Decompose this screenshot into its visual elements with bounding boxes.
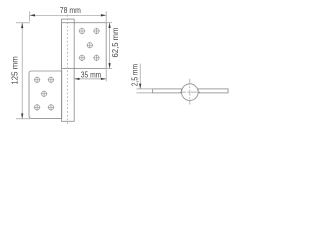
hinge barrel (front view) xyxy=(62,19,75,121)
screw hole lower leaf middle xyxy=(41,91,48,98)
svg-text:35 mm: 35 mm xyxy=(81,70,102,79)
height dimension 125 mm bottom arrow xyxy=(21,114,23,119)
height dimension 125 mm extension lines and dimension line xyxy=(16,23,30,119)
upper leaf height dimension 62,5 mm extension lines and dimension line xyxy=(106,23,112,69)
width dimension 78 mm extension lines and dimension line xyxy=(30,11,107,22)
svg-text:78 mm: 78 mm xyxy=(60,6,81,15)
side view left leaf plate xyxy=(153,89,182,93)
side view knuckle circle xyxy=(182,84,199,101)
svg-text:62,5 mm: 62,5 mm xyxy=(111,27,120,57)
svg-text:125 mm: 125 mm xyxy=(11,56,20,85)
dimension 35 mm right arrow xyxy=(101,78,106,80)
screw hole upper leaf bottom-right xyxy=(93,55,100,62)
thickness dimension 2,5 mm extension lines and dimension line xyxy=(137,64,153,93)
knuckle horizontal centerline xyxy=(180,91,200,93)
screw hole lower leaf top-left xyxy=(34,77,41,84)
screw hole upper leaf bottom-left xyxy=(79,55,86,62)
upper leaf (front view) xyxy=(62,23,107,69)
screw hole upper leaf top-left xyxy=(79,28,86,35)
screw hole lower leaf bottom-right xyxy=(48,104,55,111)
screw hole lower leaf bottom-left xyxy=(34,104,41,111)
width dimension 78 mm right arrow xyxy=(101,14,106,16)
barrel centerline xyxy=(66,15,68,126)
height dimension 125 mm top arrow xyxy=(21,23,23,28)
screw hole lower leaf top-right xyxy=(48,77,55,84)
knuckle vertical centerline xyxy=(189,79,191,105)
screw hole upper leaf top-right xyxy=(93,28,100,35)
dimension 2,5 mm arrow xyxy=(139,84,141,89)
leaf width dimension 35 mm extension lines and dimension line xyxy=(74,69,106,81)
screw hole upper leaf middle xyxy=(87,42,94,49)
lower leaf (front view) xyxy=(29,71,62,118)
dimension 62,5 mm bottom arrow xyxy=(108,63,110,68)
side view right leaf plate xyxy=(198,89,228,93)
dimension 62,5 mm top arrow xyxy=(108,23,110,28)
svg-text:2,5 mm: 2,5 mm xyxy=(130,64,139,87)
width dimension 78 mm left arrow xyxy=(30,14,35,16)
dimension 35 mm left arrow xyxy=(74,78,79,80)
